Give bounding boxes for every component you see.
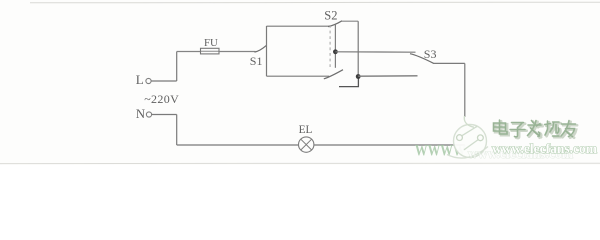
- wire N corner down: [152, 114, 177, 116]
- wire fuse to S1: [219, 51, 256, 53]
- wire box left vertical: [266, 26, 268, 76]
- fuse FU: [201, 37, 220, 54]
- watermark logo: [447, 116, 488, 158]
- svg-text:www.elecfans.com: www.elecfans.com: [492, 141, 598, 156]
- wire S2 to S3 lower traveller: [358, 75, 417, 77]
- wire S2 right vertical: [357, 21, 359, 76]
- wire right vertical down: [464, 63, 466, 117]
- switch S3 lever: [410, 54, 434, 64]
- terminal N: [146, 112, 151, 117]
- svg-text:L: L: [136, 72, 144, 87]
- wire lamp to right vertical: [314, 144, 465, 146]
- svg-text:FU: FU: [204, 37, 218, 49]
- wire L terminal to corner: [151, 80, 177, 82]
- terminal L: [146, 78, 151, 83]
- wire S3 common to corner: [433, 62, 465, 64]
- watermark chinese text (drawn strokes): [495, 121, 577, 138]
- svg-text:~220V: ~220V: [144, 92, 179, 106]
- svg-text:N: N: [136, 107, 145, 121]
- lamp EL: [299, 124, 314, 153]
- switch S1 lever: [255, 46, 267, 53]
- svg-text:EL: EL: [299, 124, 313, 136]
- svg-text:S2: S2: [324, 9, 337, 23]
- junction dot upper: [333, 49, 338, 54]
- wire box bottom rail: [267, 75, 330, 77]
- wire box top rail: [267, 25, 330, 27]
- scan edge artifact top: [30, 1, 600, 4]
- svg-text:S3: S3: [424, 47, 437, 61]
- wire S2 to S3 upper traveller: [335, 51, 415, 53]
- wire N riser: [176, 115, 178, 146]
- switch S2 bottom lever: [324, 70, 343, 79]
- junction dot lower: [356, 74, 361, 79]
- wire S2 crossover vertical: [334, 25, 336, 68]
- wire corner up to fuse rail: [176, 52, 178, 82]
- wire lamp to left riser: [177, 144, 299, 146]
- wire corner to fuse: [177, 51, 201, 53]
- mechanical link S2 (dashed): [329, 25, 331, 69]
- switch S2 top lever: [328, 21, 342, 27]
- svg-text:S1: S1: [250, 54, 263, 68]
- scan edge artifact bottom: [0, 162, 600, 164]
- wire S2 top contact: [342, 20, 358, 22]
- wire S2 lower hook: [339, 77, 358, 87]
